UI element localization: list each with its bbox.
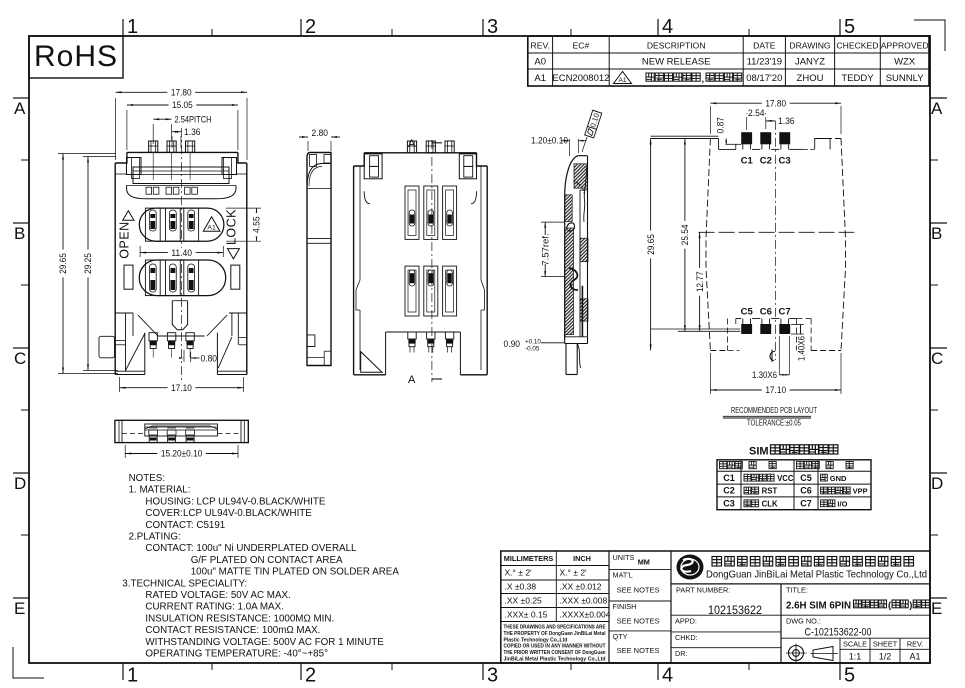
svg-text:C5: C5 (800, 473, 812, 483)
svg-text:HOUSING: LCP UL94V-0.BLACK/W: HOUSING: LCP UL94V-0.BLACK/WHITE (145, 496, 325, 507)
svg-text:SEE NOTES: SEE NOTES (617, 586, 660, 595)
front view top contact pins C-row (149, 141, 195, 180)
notes text block (122, 473, 399, 660)
svg-text:29.65: 29.65 (646, 234, 657, 255)
front view bottom solder pins (149, 333, 194, 358)
svg-text:SEE NOTES: SEE NOTES (617, 646, 660, 655)
svg-text:1.30X6: 1.30X6 (752, 370, 777, 380)
svg-text:1.40X6: 1.40X6 (797, 336, 807, 361)
svg-text:C1: C1 (723, 473, 735, 483)
svg-text:RST: RST (762, 487, 778, 496)
svg-text:CONTACT: C5191: CONTACT: C5191 (145, 520, 225, 531)
svg-text:DongGuan JinBiLai Metal Pla: DongGuan JinBiLai Metal Plastic Technolo… (706, 570, 927, 581)
svg-text:2.54PITCH: 2.54PITCH (175, 115, 212, 126)
svg-text:1:1: 1:1 (849, 652, 862, 662)
dwg no cell (781, 615, 930, 638)
dim 0.80 (179, 350, 217, 365)
svg-text:B: B (931, 224, 942, 243)
svg-text:TOLERANCE:±0.05: TOLERANCE:±0.05 (747, 418, 801, 428)
revision table header (531, 41, 929, 51)
svg-text:DATE: DATE (753, 41, 776, 51)
svg-text:INSULATION RESISTANCE: 1000M: INSULATION RESISTANCE: 1000MΩ MIN. (145, 613, 334, 624)
svg-text:C5: C5 (741, 307, 754, 318)
svg-text:X.° ± 2': X.° ± 2' (505, 568, 533, 578)
svg-text:C3: C3 (779, 156, 791, 167)
svg-text:15.20±0.10: 15.20±0.10 (161, 449, 203, 460)
back view outline (354, 153, 488, 375)
pcb dashed outline (706, 139, 846, 351)
svg-text:2: 2 (305, 665, 316, 687)
svg-text:+0.10: +0.10 (525, 339, 541, 346)
warning triangle A1 marker (203, 217, 220, 232)
scale sheet rev (840, 638, 930, 663)
svg-text:CHECKED: CHECKED (836, 41, 878, 51)
svg-text:Plastic Technology Co.,Ltd: Plastic Technology Co.,Ltd (504, 637, 568, 643)
svg-text:LOCK: LOCK (224, 209, 238, 245)
dim 17.10 front (120, 377, 244, 394)
pin table title SIM (749, 445, 838, 458)
svg-text:NOTES:: NOTES: (129, 473, 165, 484)
dim 1.36 front (172, 127, 201, 148)
title block verticals + tol rows (501, 551, 671, 663)
dim 0.90 section (504, 335, 595, 353)
svg-text:C6: C6 (760, 307, 772, 318)
svg-text:1: 1 (127, 665, 138, 687)
section centerline A-A (408, 138, 442, 386)
dim 2.54 pcb (747, 108, 766, 130)
pcb pads C5-C7 (741, 319, 790, 335)
front view upper contact window (139, 208, 224, 241)
pcb pad labels top (741, 156, 791, 167)
side guide slots (124, 265, 240, 289)
svg-text:A1: A1 (207, 224, 216, 231)
svg-text:OPEN: OPEN (118, 221, 132, 258)
svg-text:C: C (931, 349, 943, 368)
pin table header (720, 462, 854, 469)
svg-text:A: A (408, 374, 416, 386)
pin table grid (717, 460, 871, 510)
svg-text:5: 5 (844, 665, 855, 687)
svg-text:,: , (702, 74, 705, 84)
dim 15.05 front (127, 100, 238, 150)
svg-text:1: 1 (127, 16, 138, 38)
svg-text:C6: C6 (800, 486, 812, 496)
svg-text:D: D (931, 474, 943, 493)
svg-text:A: A (931, 99, 943, 118)
company logo (677, 555, 704, 580)
svg-text:A1: A1 (909, 652, 920, 662)
dim 2.80 side (299, 128, 340, 151)
dim 25.54 pcb (680, 139, 691, 332)
svg-text:C2: C2 (723, 486, 735, 496)
OPEN label and arrow (118, 211, 135, 259)
dim 7.57ref section (541, 222, 565, 277)
svg-text:QTY: QTY (613, 632, 628, 641)
back view upper slots (405, 186, 457, 239)
svg-text:.XX ±0.25: .XX ±0.25 (505, 595, 543, 605)
svg-text:EC#: EC# (573, 41, 590, 51)
svg-text:2.6H SIM 6PIN: 2.6H SIM 6PIN (786, 601, 851, 612)
svg-text:17.10: 17.10 (171, 383, 192, 394)
svg-text:GND: GND (830, 474, 847, 483)
svg-text:MILLIMETERS: MILLIMETERS (504, 554, 554, 563)
pcb horizontal centerline (699, 231, 855, 233)
svg-text:29.25: 29.25 (83, 253, 94, 274)
section view A-A (565, 156, 588, 375)
svg-text:A: A (408, 138, 416, 150)
svg-text:C: C (14, 349, 26, 368)
back view lower slots (405, 266, 457, 316)
svg-text:C2: C2 (760, 156, 772, 167)
svg-text:ZHOU: ZHOU (797, 73, 824, 84)
back view top pins (407, 141, 454, 153)
side view outline (307, 153, 331, 366)
flatness callout (582, 110, 602, 152)
back view bottom pins (408, 332, 454, 353)
svg-text:SIM: SIM (749, 446, 769, 458)
svg-text:.X ±0.38: .X ±0.38 (505, 582, 537, 592)
svg-text:CLK: CLK (762, 500, 778, 509)
svg-text:C3: C3 (723, 499, 735, 509)
dim 29.65 front (58, 154, 118, 374)
svg-text:CURRENT RATING: 1.0A MAX.: CURRENT RATING: 1.0A MAX. (145, 602, 283, 613)
svg-text:E: E (931, 599, 942, 618)
left zone letters A-E (13, 98, 29, 618)
bottom view pins (149, 428, 195, 443)
units matl finish qty (609, 553, 671, 655)
pcb pad labels bottom (741, 307, 791, 318)
front view outer outline (115, 152, 247, 374)
svg-text:): ) (909, 600, 912, 611)
svg-text:-0.05: -0.05 (525, 346, 540, 353)
top zone numbers 1-5 (123, 16, 855, 38)
svg-text:CONTACT RESISTANCE: 100mΩ M: CONTACT RESISTANCE: 100mΩ MAX. (145, 625, 320, 636)
svg-text:4: 4 (662, 16, 673, 38)
svg-text:100u" MATTE TIN PLATED ON: 100u" MATTE TIN PLATED ON SOLDER AREA (191, 567, 400, 578)
pcb vertical centerline (774, 121, 776, 360)
svg-text:15.05: 15.05 (172, 100, 193, 111)
svg-text:RECOMMENDED PCB LAYOUT: RECOMMENDED PCB LAYOUT (731, 405, 818, 415)
dim 29.25 front (83, 157, 118, 371)
revision table grid (528, 36, 929, 86)
svg-text:08/17'20: 08/17'20 (746, 73, 782, 84)
proprietary fine print (504, 625, 607, 663)
svg-text:12.77: 12.77 (695, 271, 706, 292)
dim 2.54PITCH front (153, 115, 211, 144)
svg-text:JinBiLai Metal Plastic Technol: JinBiLai Metal Plastic Technology Co.,Lt… (504, 657, 606, 663)
bottom view outline (115, 420, 248, 442)
bottom-left corner mark (13, 647, 44, 678)
svg-text:DR:: DR: (675, 649, 688, 658)
svg-text:THE PRIOR WRITTEN CONSENT OF D: THE PRIOR WRITTEN CONSENT OF DongGuan (504, 650, 606, 656)
svg-text:5: 5 (844, 16, 855, 38)
svg-text:C7: C7 (800, 499, 812, 509)
svg-text:.XXX ±0.008: .XXX ±0.008 (560, 595, 608, 605)
svg-text:PART NUMBER:: PART NUMBER: (676, 586, 730, 595)
svg-text:0.87: 0.87 (716, 117, 726, 134)
svg-text:ECN2008012: ECN2008012 (552, 73, 609, 84)
svg-text:D: D (14, 474, 26, 493)
LOCK label and arrow (224, 209, 239, 259)
svg-text:4.55: 4.55 (252, 216, 263, 233)
svg-text:2.80: 2.80 (312, 128, 329, 139)
svg-text:.XX ±0.012: .XX ±0.012 (560, 582, 602, 592)
svg-text:11/23'19: 11/23'19 (747, 57, 782, 68)
pcb top edge with pad notches (651, 136, 831, 149)
svg-text:MM: MM (638, 558, 650, 567)
pcb pads C1-C3 (741, 132, 790, 149)
title cell (786, 586, 929, 612)
dim 17.80 front (116, 88, 248, 160)
svg-text:INCH: INCH (573, 554, 591, 563)
svg-text:C7: C7 (779, 307, 791, 318)
svg-text:X.° ± 2': X.° ± 2' (560, 568, 588, 578)
recommended pcb layout caption (723, 405, 818, 428)
svg-text:DESCRIPTION: DESCRIPTION (647, 41, 706, 51)
front view bottom feet (99, 313, 247, 375)
dim 17.10 pcb (710, 353, 841, 396)
svg-text:1/2: 1/2 (879, 652, 892, 662)
svg-text:APPD:: APPD: (675, 617, 697, 626)
svg-text:B: B (14, 224, 25, 243)
svg-text:A: A (14, 99, 26, 118)
svg-text:CONTACT: 100u" Ni UNDERPLAT: CONTACT: 100u" Ni UNDERPLATED OVERALL (145, 543, 357, 554)
projection symbol (786, 638, 840, 663)
svg-text:I/O: I/O (837, 500, 847, 509)
svg-text:CHKD:: CHKD: (675, 633, 698, 642)
svg-text:APPROVED: APPROVED (881, 41, 929, 51)
company english name (706, 570, 927, 581)
dim 15.20 bottom (125, 445, 238, 460)
dim 0.87 pcb (716, 117, 737, 144)
pcb bottom edge with pad notches (651, 319, 797, 332)
svg-text:OPERATING TEMPERATURE: -40°~: OPERATING TEMPERATURE: -40°~+85° (145, 649, 328, 660)
dim 1.36 pcb (766, 116, 795, 129)
dim 1.40X6 pcb (791, 325, 807, 362)
svg-text:VPP: VPP (853, 487, 868, 496)
svg-text:THE PROPERTY OF DongGuan JinBi: THE PROPERTY OF DongGuan JinBiLai Metal (504, 631, 607, 637)
svg-text:G/F PLATED ON CONTACT AREA: G/F PLATED ON CONTACT AREA (191, 555, 343, 566)
svg-text:NEW RELEASE: NEW RELEASE (642, 57, 711, 68)
svg-text:JANYZ: JANYZ (795, 57, 825, 68)
svg-text:TITLE:: TITLE: (786, 586, 808, 595)
title block outer (501, 551, 930, 663)
dim 17.80 pcb (710, 98, 841, 134)
svg-text:3: 3 (487, 665, 498, 687)
bottom zone numbers 1-5 (123, 663, 855, 687)
svg-text:RATED VOLTAGE: 50V AC MAX.: RATED VOLTAGE: 50V AC MAX. (145, 590, 290, 601)
svg-text:SUNNLY: SUNNLY (886, 73, 924, 84)
svg-text:C1: C1 (741, 156, 754, 167)
svg-text:3: 3 (487, 16, 498, 38)
center tab (172, 301, 187, 330)
svg-text:2.54: 2.54 (748, 108, 765, 119)
svg-text:DWG NO.:: DWG NO.: (786, 617, 821, 626)
dim 29.65 pcb (646, 139, 657, 351)
pin table rows (723, 473, 867, 509)
svg-text:SHEET: SHEET (873, 640, 898, 649)
svg-text:A1: A1 (619, 77, 627, 84)
svg-text:THESE DRAWINGS AND SPECIFICATI: THESE DRAWINGS AND SPECIFICATIONS ARE (504, 625, 607, 631)
dim 1.30X6 pcb (752, 336, 789, 380)
svg-text:REV.: REV. (907, 640, 923, 649)
svg-text:1. MATERIAL:: 1. MATERIAL: (129, 485, 191, 496)
svg-text:SEE NOTES: SEE NOTES (617, 617, 660, 626)
svg-text:TEDDY: TEDDY (841, 73, 874, 84)
svg-text:29.65: 29.65 (58, 253, 69, 274)
svg-text:REV.: REV. (531, 41, 550, 51)
svg-text:3.TECHNICAL SPECIALITY:: 3.TECHNICAL SPECIALITY: (122, 578, 247, 589)
svg-text:17.80: 17.80 (171, 88, 192, 99)
top-right corner mark (914, 20, 945, 51)
svg-text:1.36: 1.36 (778, 116, 795, 127)
svg-text:C-102153622-00: C-102153622-00 (805, 627, 872, 639)
dim 11.40 (140, 246, 223, 259)
dim 1.20 section (531, 135, 587, 156)
svg-text:DRAWING: DRAWING (789, 41, 831, 51)
svg-text:FINISH: FINISH (613, 602, 637, 611)
svg-text:7.57ref.: 7.57ref. (541, 233, 552, 265)
revision row A0 (534, 57, 915, 68)
front view vertical centerline (181, 128, 183, 392)
right zone letters A-E (930, 98, 947, 618)
svg-text:A1: A1 (534, 73, 546, 84)
svg-text:17.80: 17.80 (765, 98, 786, 109)
svg-text:SCALE: SCALE (843, 640, 867, 649)
svg-text:25.54: 25.54 (680, 225, 691, 246)
appd chkd dr rows (671, 615, 781, 658)
dim 12.77 pcb (695, 232, 706, 331)
part number cell (676, 584, 781, 663)
RoHS logo box (29, 36, 123, 78)
front view lower contact window (139, 260, 225, 296)
tolerance table text (504, 554, 611, 619)
company block frame (671, 583, 930, 585)
svg-text:2.PLATING:: 2.PLATING: (129, 532, 181, 543)
svg-text:.XXX± 0.15: .XXX± 0.15 (505, 609, 548, 619)
revision row A1 (534, 72, 924, 85)
svg-text:11.40: 11.40 (171, 248, 192, 259)
svg-text:COVER:LCP UL94V-0.BLACK/WHITE: COVER:LCP UL94V-0.BLACK/WHITE (145, 508, 312, 519)
svg-text:0.90: 0.90 (504, 339, 521, 350)
svg-text:MAT'L: MAT'L (613, 571, 633, 580)
svg-text:RoHS: RoHS (34, 40, 118, 73)
svg-text:17.10: 17.10 (765, 385, 786, 396)
svg-text:WITHSTANDING VOLTAGE: 500V: WITHSTANDING VOLTAGE: 500V AC FOR 1 MINU… (145, 637, 384, 648)
svg-text:0.80: 0.80 (201, 354, 218, 365)
svg-text:COPIED OR USED IN ANY MANNER W: COPIED OR USED IN ANY MANNER WITHOUT (504, 644, 606, 650)
svg-text:VCC: VCC (777, 474, 794, 483)
svg-text:UNITS: UNITS (613, 553, 635, 562)
svg-text:A0: A0 (534, 57, 546, 68)
svg-text:.XXXX±0.004: .XXXX±0.004 (560, 609, 611, 619)
svg-text:1.36: 1.36 (184, 127, 201, 138)
svg-text:4: 4 (662, 665, 673, 687)
front view hinge tabs and curve (127, 186, 237, 199)
svg-text:WZX: WZX (894, 57, 916, 68)
company chinese name (712, 557, 914, 567)
centerline symbol (770, 350, 775, 363)
dim 4.55 (226, 208, 263, 241)
front view cover band (115, 158, 247, 184)
svg-text:E: E (14, 599, 25, 618)
svg-text:2: 2 (305, 16, 316, 38)
